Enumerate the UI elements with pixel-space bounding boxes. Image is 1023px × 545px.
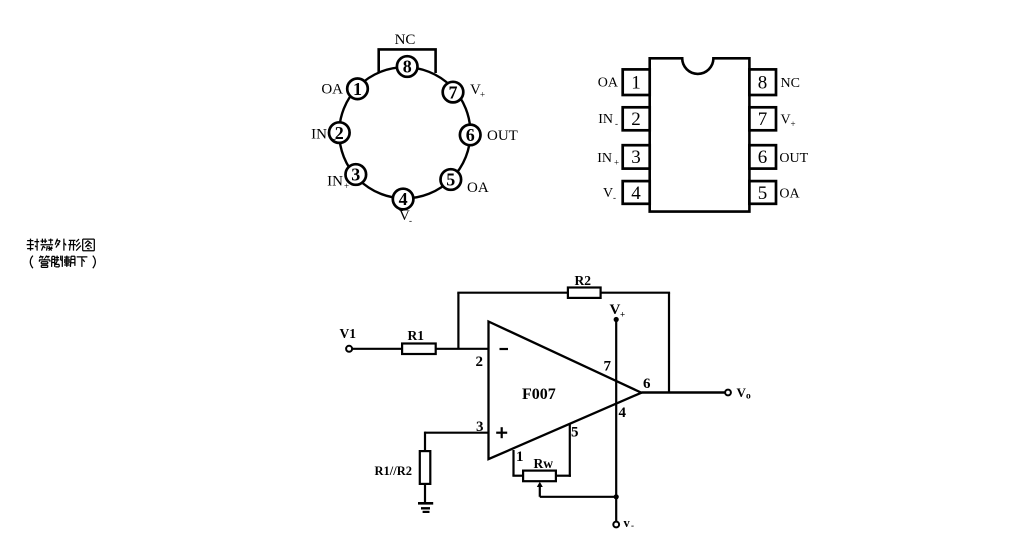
pin 8 (TO-99) (397, 56, 418, 77)
svg-text:+: + (344, 181, 349, 191)
DIP pin 5 box (749, 181, 776, 204)
svg-text:OUT: OUT (487, 128, 518, 144)
svg-text:4: 4 (619, 405, 627, 421)
svg-text:R2: R2 (575, 273, 592, 288)
V+ supply dot (614, 317, 619, 322)
svg-text:OA: OA (467, 180, 489, 196)
TO-99 package outline circle (339, 67, 470, 198)
DIP pin 1 box (623, 69, 650, 95)
Rw wiper arrow (537, 482, 543, 487)
svg-text:-: - (615, 119, 618, 129)
wire output to Vo (641, 391, 725, 393)
svg-text:IN: IN (597, 151, 612, 166)
pin 7 (TO-99) (443, 82, 464, 103)
wire V+ rail down through op-amp to v- (615, 320, 617, 522)
DIP pin 6 box (749, 145, 776, 168)
resistor R2 (568, 288, 601, 298)
svg-text:R1//R2: R1//R2 (375, 464, 413, 478)
potentiometer Rw (523, 471, 556, 482)
svg-text:V: V (603, 186, 613, 201)
svg-text:3: 3 (351, 165, 360, 185)
svg-text:7: 7 (604, 359, 612, 375)
svg-text:V1: V1 (340, 326, 357, 341)
svg-text:v: v (624, 516, 631, 530)
svg-text:F007: F007 (522, 386, 556, 403)
pin 5 (TO-99) (441, 169, 462, 190)
svg-text:-: - (631, 521, 634, 531)
minus sign inverting input (500, 348, 509, 350)
svg-text:4: 4 (399, 189, 408, 209)
svg-text:3: 3 (631, 147, 641, 168)
svg-text:-: - (333, 134, 336, 144)
svg-text:+: + (620, 310, 625, 320)
resistor R1//R2 (420, 451, 431, 484)
wire feedback riser from node A (457, 293, 459, 349)
svg-text:Rw: Rw (534, 456, 554, 471)
ground symbol (418, 503, 433, 512)
svg-text:OA: OA (779, 187, 800, 202)
pin 3 (TO-99) (346, 164, 367, 185)
input terminal V1 (346, 346, 352, 352)
svg-text:-: - (613, 193, 616, 203)
caption （管脚朝下） (hand-drawn strokes) (30, 256, 95, 269)
wire R1//R2 to ground (424, 484, 426, 502)
wire R1 to inverting input (node A) (436, 348, 489, 350)
svg-text:V: V (781, 113, 791, 128)
svg-text:6: 6 (758, 147, 768, 168)
svg-text:+: + (791, 119, 796, 129)
pin 2 (TO-99) (329, 122, 350, 143)
svg-text:IN: IN (311, 127, 327, 143)
resistor R1 (402, 344, 436, 355)
svg-text:-: - (409, 216, 412, 226)
svg-text:4: 4 (631, 183, 641, 204)
svg-text:+: + (614, 158, 619, 168)
svg-text:2: 2 (476, 354, 484, 370)
svg-text:R1: R1 (408, 328, 425, 343)
svg-text:1: 1 (516, 449, 524, 465)
plus sign non-inverting input (496, 432, 507, 434)
svg-text:8: 8 (758, 73, 768, 94)
svg-text:2: 2 (335, 123, 344, 143)
svg-text:IN: IN (327, 174, 343, 190)
pin 1 (TO-99) (347, 79, 368, 100)
pin 6 (TO-99) (460, 125, 481, 146)
svg-text:NC: NC (395, 32, 416, 48)
svg-text:2: 2 (631, 109, 641, 130)
caption 封装外形图 (hand-drawn strokes) (27, 239, 95, 251)
wire riser to R2 (457, 292, 568, 294)
wire feedback down to output (668, 293, 670, 393)
svg-text:+: + (480, 90, 485, 100)
svg-text:1: 1 (353, 79, 362, 99)
svg-text:6: 6 (466, 125, 475, 145)
wire pin5 up to op-amp (569, 424, 571, 477)
pin 4 (TO-99) (393, 189, 414, 210)
wire pin1 to Rw (512, 475, 523, 477)
svg-text:5: 5 (571, 425, 579, 441)
svg-text:NC: NC (781, 76, 800, 91)
svg-text:V: V (737, 385, 747, 400)
wire wiper to v- rail (540, 496, 616, 498)
svg-text:5: 5 (446, 170, 455, 190)
svg-text:7: 7 (449, 82, 458, 102)
svg-text:V: V (610, 302, 621, 318)
svg-text:7: 7 (758, 109, 768, 130)
wire pin1 down (512, 450, 514, 476)
TO-99 tab (NC index notch) (379, 49, 436, 73)
svg-text:o: o (746, 392, 751, 402)
DIP pin 7 box (749, 107, 776, 130)
op-amp U1 F007 triangle (489, 322, 642, 460)
svg-text:OA: OA (321, 82, 343, 98)
wire down to R1//R2 (424, 432, 426, 452)
wire Rw to pin5 riser (556, 475, 571, 477)
DIP pin 2 box (623, 107, 650, 130)
wire wiper down (539, 484, 541, 497)
svg-text:5: 5 (758, 183, 768, 204)
wire R2 to feedback corner (601, 292, 671, 294)
junction dot wiper to v- rail (614, 494, 619, 499)
DIP pin 3 box (623, 145, 650, 168)
svg-text:OUT: OUT (779, 151, 808, 166)
svg-text:8: 8 (403, 57, 412, 77)
terminal Vo (725, 390, 731, 396)
DIP pin 4 box (623, 181, 650, 204)
svg-text:IN: IN (598, 112, 613, 127)
wire V1 to R1 (352, 348, 402, 350)
svg-text:6: 6 (643, 376, 651, 392)
wire pin3 left (425, 432, 489, 434)
DIP-8 body with notch (650, 58, 750, 211)
svg-text:OA: OA (598, 76, 619, 91)
terminal v- (613, 522, 619, 528)
DIP pin 8 box (749, 69, 776, 95)
svg-text:1: 1 (631, 73, 641, 94)
